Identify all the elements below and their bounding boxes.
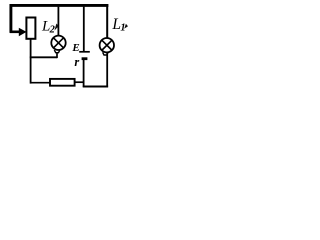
lamp L2 X filament	[54, 38, 64, 48]
battery E long plate (positive)	[79, 51, 90, 53]
wire: bottom-right bus from battery lead to right corner	[83, 86, 108, 88]
resistor R0 body (horizontal box) in bottom bus	[50, 79, 75, 86]
wire: lamp L1 top lead from top-right corner	[106, 4, 108, 38]
wire: slider arrow horizontal feed	[10, 30, 20, 33]
slider arrowhead into rheostat R	[19, 28, 27, 37]
wire: branch from rheostat lead to lamp L2 bottom	[30, 56, 57, 58]
lamp L2 socket base	[54, 50, 60, 53]
rheostat R body (vertical resistor box)	[26, 18, 35, 39]
wire: resistor to battery lead junction	[75, 81, 85, 83]
label L2 tick mark	[54, 24, 58, 31]
wire: battery bottom lead down to bottom-right bus	[83, 59, 85, 87]
wire: left vertical down to slider arrow level	[9, 4, 12, 33]
svg-text:r: r	[74, 55, 79, 69]
lamp L2 bulb circle	[51, 36, 65, 50]
wire: bottom-left bus from rheostat lead to resistor	[30, 82, 50, 84]
svg-text:2: 2	[49, 24, 56, 35]
lamp L1 bulb circle	[100, 38, 114, 52]
svg-text:E: E	[71, 42, 79, 54]
wire: lamp L2 bottom lead	[56, 52, 58, 58]
wire: top bus from top-left corner to top-right corner	[10, 4, 109, 7]
battery E short plate (negative)	[82, 57, 88, 60]
lamp L1 socket base	[103, 52, 109, 55]
lamp L1 X filament	[102, 40, 112, 50]
background	[0, 0, 129, 95]
wire: rheostat bottom lead down to bottom bus	[30, 39, 32, 84]
wire: lamp L2 top lead from top bus	[57, 7, 59, 37]
label L1 tick mark	[124, 24, 128, 29]
wire: battery top lead from top bus	[83, 7, 85, 52]
wire: lamp L1 bottom lead up from bottom-right corner	[106, 53, 108, 88]
